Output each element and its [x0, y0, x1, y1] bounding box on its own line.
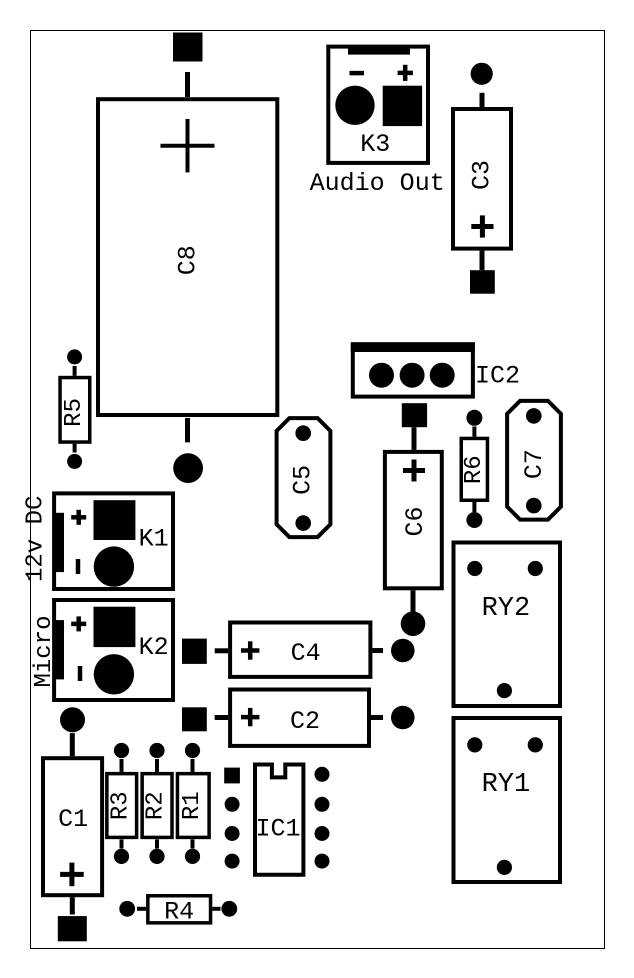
pad (R1 top)	[185, 743, 200, 758]
wire	[137, 907, 146, 911]
wire	[120, 839, 124, 848]
svg-text:C7: C7	[520, 449, 549, 479]
pad (IC1 right 7)	[315, 826, 330, 841]
pad (IC1 right 6)	[315, 797, 330, 812]
svg-text:K3: K3	[360, 130, 390, 159]
pad (IC1 left 4)	[225, 854, 240, 869]
capacitor C3	[453, 109, 511, 249]
svg-text:R2: R2	[143, 791, 170, 820]
pad (C4 right)	[391, 639, 415, 663]
pad (R6 bottom)	[466, 512, 482, 528]
square pad (C2 left)	[182, 707, 207, 731]
wire	[472, 502, 476, 512]
wire	[185, 72, 190, 97]
wire	[480, 93, 485, 107]
wire	[70, 897, 75, 914]
capacitor C5	[277, 418, 331, 537]
wire	[472, 427, 476, 437]
wire	[370, 715, 383, 720]
svg-text:C2: C2	[290, 707, 320, 736]
svg-text:Micro: Micro	[31, 615, 58, 687]
svg-text:C8: C8	[173, 245, 202, 275]
wire	[70, 733, 75, 756]
pad (IC1 right 8)	[315, 854, 330, 869]
junction pad	[401, 611, 426, 636]
svg-text:R4: R4	[164, 897, 194, 926]
wire	[480, 251, 485, 271]
pad (R1 bottom)	[185, 849, 200, 864]
square pad (C8 top)	[173, 33, 203, 62]
connector K1	[54, 493, 173, 589]
wire	[215, 715, 228, 720]
relay RY2	[454, 543, 561, 707]
svg-text:R1: R1	[179, 791, 206, 820]
capacitor C1	[43, 758, 102, 895]
pad (R5 top)	[67, 349, 82, 364]
square pad (IC1 pin 1)	[224, 768, 240, 784]
pad (R2 top)	[149, 743, 164, 758]
wire	[185, 418, 190, 442]
wire	[191, 839, 195, 848]
pad (C3 top)	[471, 63, 493, 85]
pad (R4 right)	[221, 901, 237, 917]
capacitor C4	[230, 623, 370, 677]
wire	[215, 648, 228, 653]
IC IC2	[351, 342, 475, 396]
svg-text:RY1: RY1	[482, 770, 531, 800]
pad (R3 top)	[114, 743, 129, 758]
relay RY1	[454, 718, 561, 882]
wire	[191, 759, 195, 772]
pad (C2 right)	[391, 706, 415, 730]
wire	[73, 366, 77, 376]
svg-text:C3: C3	[468, 160, 497, 190]
wire	[372, 648, 383, 653]
square pad (C1 bottom)	[58, 916, 87, 941]
svg-text:C1: C1	[58, 805, 88, 834]
pad (R5 bottom)	[67, 454, 82, 469]
svg-text:C6: C6	[401, 506, 430, 536]
pad (IC1 left 2)	[225, 797, 240, 812]
resistor R3	[107, 774, 137, 838]
square pad (C4 left)	[182, 639, 207, 664]
square pad (below IC2)	[402, 403, 427, 427]
pad (IC1 left 3)	[225, 826, 240, 841]
pad (R3 bottom)	[114, 849, 129, 864]
svg-text:R3: R3	[107, 791, 134, 820]
svg-text:R5: R5	[61, 398, 88, 427]
wire	[412, 427, 417, 450]
wire	[411, 590, 416, 613]
wire	[155, 759, 159, 772]
wire	[73, 444, 77, 453]
pad (IC1 right 5)	[315, 767, 330, 782]
square pad (C3 bottom)	[470, 270, 495, 294]
svg-text:12v DC: 12v DC	[23, 496, 50, 582]
svg-text:R6: R6	[461, 455, 488, 484]
capacitor C8	[98, 99, 277, 415]
connector K3	[328, 47, 428, 163]
svg-text:IC2: IC2	[475, 362, 520, 391]
IC IC1	[255, 765, 303, 875]
wire	[120, 759, 124, 772]
resistor R1	[177, 774, 209, 838]
wire	[155, 839, 159, 848]
wire	[212, 907, 220, 911]
svg-text:Audio Out: Audio Out	[310, 169, 445, 198]
svg-text:C4: C4	[291, 639, 321, 668]
capacitor C6	[385, 452, 442, 588]
svg-text:RY2: RY2	[482, 594, 531, 624]
junction pad	[173, 453, 203, 483]
resistor R6	[461, 438, 488, 500]
svg-text:IC1: IC1	[255, 815, 300, 844]
svg-text:K1: K1	[139, 525, 169, 554]
pad (C1 top)	[60, 707, 85, 732]
svg-text:K2: K2	[139, 633, 169, 662]
resistor R2	[142, 774, 172, 838]
pad (R4 left)	[119, 901, 135, 917]
capacitor C7	[507, 401, 561, 520]
svg-text:C5: C5	[289, 465, 318, 495]
capacitor C2	[230, 690, 369, 746]
pad (R2 bottom)	[149, 849, 164, 864]
pad (R6 top)	[466, 410, 482, 426]
resistor R4	[148, 896, 211, 927]
connector K2	[54, 600, 173, 700]
resistor R5	[60, 378, 90, 443]
